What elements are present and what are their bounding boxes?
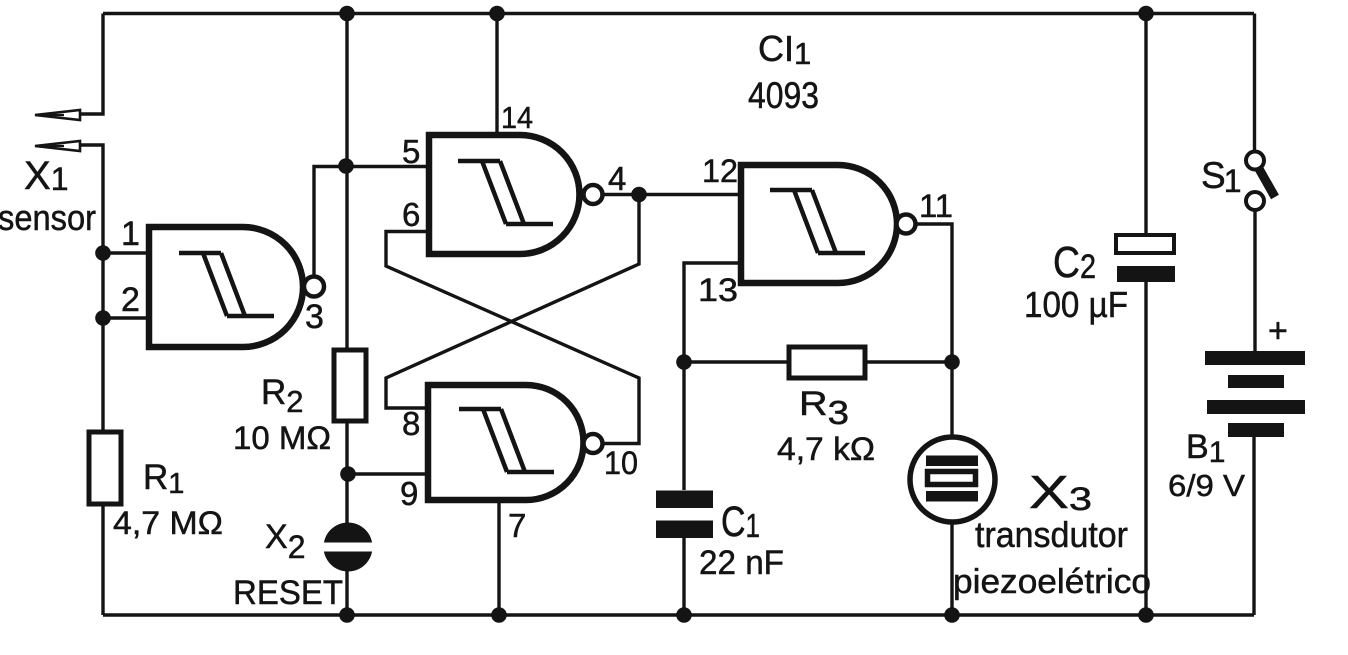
svg-text:9: 9 xyxy=(400,475,418,512)
resistor R1 xyxy=(89,432,121,504)
wire pin 7 to bottom rail xyxy=(497,500,500,615)
svg-text:B1: B1 xyxy=(1186,428,1225,469)
wire left rail lower (sensor electrode down to bottom rail) xyxy=(80,145,103,615)
svg-text:4,7 kΩ: 4,7 kΩ xyxy=(777,431,875,467)
svg-text:X2: X2 xyxy=(265,518,305,565)
junction bottom rail / pin 7 xyxy=(491,607,507,623)
wire C2 branch upper xyxy=(1144,14,1147,236)
nand gate U1D body xyxy=(741,165,897,283)
junction pin 9 / R2 branch xyxy=(340,466,356,482)
transducer X3 middle plate xyxy=(928,472,976,485)
svg-text:3: 3 xyxy=(305,298,324,336)
wire C2 branch lower xyxy=(1144,282,1147,615)
battery B1 plate 2 xyxy=(1228,375,1284,388)
svg-text:RESET: RESET xyxy=(233,574,343,612)
wire pin 14 to top rail xyxy=(495,14,498,136)
svg-text:8: 8 xyxy=(402,405,420,442)
battery B1 plate 3 xyxy=(1207,400,1305,414)
junction bottom rail / X2 xyxy=(339,607,355,623)
wire S1 to battery xyxy=(1253,210,1256,351)
battery B1 plate 4 xyxy=(1228,423,1284,437)
wire C1 bottom to rail xyxy=(682,537,685,615)
junction top rail / pin 14 xyxy=(489,6,505,22)
wire pin 1 xyxy=(103,251,149,254)
svg-text:R2: R2 xyxy=(261,373,304,419)
pushbutton X2 gap xyxy=(320,543,376,552)
junction top rail / R2 xyxy=(339,6,355,22)
junction pin 2 / left rail xyxy=(95,310,111,326)
svg-text:12: 12 xyxy=(702,153,738,189)
svg-text:transdutor: transdutor xyxy=(975,514,1128,555)
junction pin13 node / R3 / C1 xyxy=(676,354,692,370)
resistor R2 xyxy=(334,350,366,421)
svg-text:C2: C2 xyxy=(1053,238,1096,287)
wire gate1 output 3 up to pin 5 xyxy=(314,167,429,278)
transducer X3 bottom bar xyxy=(926,491,978,502)
svg-text:S1: S1 xyxy=(1201,155,1241,199)
capacitor C1 bottom plate xyxy=(656,521,713,539)
svg-text:6: 6 xyxy=(402,196,420,233)
switch S1 top contact xyxy=(1246,152,1264,170)
svg-text:4: 4 xyxy=(608,160,626,197)
pushbutton X2 body xyxy=(324,523,373,572)
wire node to R3 left xyxy=(684,360,789,363)
svg-text:7: 7 xyxy=(508,507,526,544)
schmitt symbol U1D xyxy=(770,190,865,253)
nand gate U1B body xyxy=(429,135,579,254)
svg-text:4,7 MΩ: 4,7 MΩ xyxy=(113,505,223,541)
svg-text:5: 5 xyxy=(402,133,420,170)
junction bottom rail / X3 xyxy=(944,607,960,623)
wire right rail to S1 xyxy=(1253,14,1256,153)
svg-text:10 MΩ: 10 MΩ xyxy=(233,420,331,456)
svg-text:13: 13 xyxy=(698,272,738,308)
wire pin 6 cross-couple to output 10 xyxy=(386,232,639,444)
capacitor C1 top plate xyxy=(656,491,713,509)
svg-text:X3: X3 xyxy=(1029,466,1092,518)
wire output 4 to pin 12 xyxy=(603,193,742,196)
wire X3 top xyxy=(950,362,953,438)
wire left rail upper (top rail to sensor electrode) xyxy=(80,14,103,115)
junction bottom rail / C1 xyxy=(676,607,692,623)
wire R2 branch middle (R2 to X2) xyxy=(345,421,348,523)
output bubble pin 3 xyxy=(304,277,324,297)
switch S1 bottom contact xyxy=(1246,192,1264,210)
switch S1 lever xyxy=(1258,167,1275,197)
wire R3 right to node xyxy=(865,360,952,363)
sensor X1 electrode arrow upper xyxy=(35,110,80,120)
svg-text:14: 14 xyxy=(501,100,533,135)
wire top supply rail xyxy=(103,12,1254,15)
svg-text:piezoelétrico: piezoelétrico xyxy=(953,563,1151,601)
wire battery to bottom rail xyxy=(1252,437,1255,615)
capacitor C2 top plate xyxy=(1116,235,1174,253)
schmitt symbol U1C xyxy=(459,409,554,472)
nand gate U1A body xyxy=(149,227,303,347)
svg-text:6/9 V: 6/9 V xyxy=(1168,468,1245,503)
capacitor C2 bottom plate xyxy=(1117,266,1175,282)
output bubble pin 10 xyxy=(584,434,603,453)
junction output 4 node xyxy=(631,187,647,203)
wire pin 13 down to node xyxy=(684,263,741,362)
svg-text:1: 1 xyxy=(121,215,140,253)
transducer X3 top bar xyxy=(926,456,978,467)
svg-text:22 nF: 22 nF xyxy=(699,544,784,582)
wire bottom ground rail xyxy=(103,613,1254,616)
svg-text:100 µF: 100 µF xyxy=(1024,284,1128,325)
junction bottom rail / C2 xyxy=(1138,607,1154,623)
schmitt symbol U1A xyxy=(179,253,274,316)
svg-text:10: 10 xyxy=(604,445,638,481)
wire pin 9 xyxy=(348,472,428,475)
transducer X3 body xyxy=(910,437,995,522)
battery B1 plate 1 xyxy=(1205,351,1305,365)
wire X3 bottom to rail xyxy=(950,521,953,615)
svg-text:+: + xyxy=(1268,312,1288,350)
output bubble pin 11 xyxy=(897,215,916,234)
svg-text:4093: 4093 xyxy=(748,75,819,116)
wire X2 to bottom rail xyxy=(345,571,348,615)
wire output 4 cross-couple to pin 8 xyxy=(386,195,639,409)
wire pin 2 xyxy=(103,316,149,319)
junction pin 1 / left rail xyxy=(95,245,111,261)
svg-text:X1: X1 xyxy=(24,154,68,198)
svg-text:R3: R3 xyxy=(799,385,849,431)
wire output 11 down to R3 xyxy=(916,224,953,362)
sensor X1 electrode arrow lower xyxy=(35,141,80,151)
output bubble pin 4 xyxy=(584,185,603,204)
junction pin5 wire / R2 branch xyxy=(338,158,354,174)
schmitt symbol U1B xyxy=(458,161,553,224)
svg-text:R1: R1 xyxy=(143,458,184,500)
wire C1 top xyxy=(682,362,685,490)
junction top rail / C2 xyxy=(1138,6,1154,22)
nand gate U1C body xyxy=(428,385,583,500)
svg-text:C1: C1 xyxy=(721,498,760,546)
svg-text:sensor: sensor xyxy=(0,197,96,238)
svg-text:11: 11 xyxy=(919,188,953,224)
svg-text:CI1: CI1 xyxy=(758,28,811,71)
resistor R3 xyxy=(789,347,865,378)
wire R2 branch upper (top rail to R2) xyxy=(345,14,348,351)
junction output 11 / R3 / X3 xyxy=(944,354,960,370)
svg-text:2: 2 xyxy=(121,281,140,319)
